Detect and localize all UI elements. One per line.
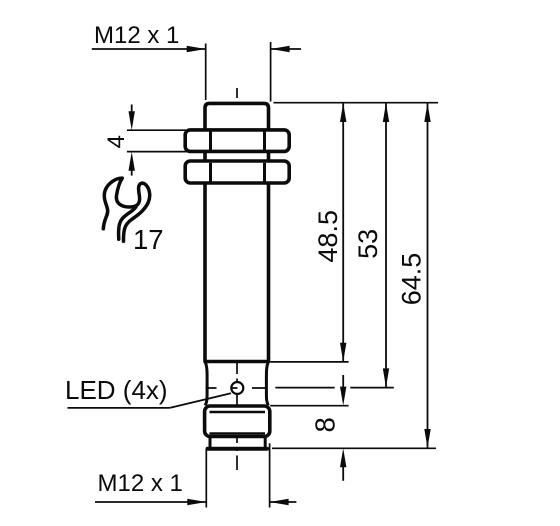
LED label underline	[68, 407, 170, 409]
right extension line at barrel step	[270, 361, 348, 363]
bottom M12 dimension line left part	[95, 501, 206, 503]
bottom M12 right arrowhead	[270, 499, 289, 505]
svg-text:4: 4	[103, 135, 130, 148]
LED ring section sides	[205, 363, 207, 406]
bottom M12 dimension line right part	[270, 501, 297, 503]
top M12 dimension line left part	[92, 48, 205, 50]
wrench handle left edge	[119, 207, 136, 239]
sensing face plate	[208, 447, 268, 451]
4-dim bottom extension line	[127, 151, 187, 153]
top M12 right arrowhead	[271, 46, 290, 52]
dimension line 53	[385, 103, 387, 387]
4-dim upper arrowhead	[129, 111, 135, 130]
53 top arrowhead	[383, 103, 389, 122]
hex nut 1 (upper)	[185, 130, 289, 152]
LED leader line	[170, 393, 231, 408]
53 bottom arrowhead	[383, 368, 389, 387]
right extension line at tip cap top (8 measure)	[270, 405, 348, 407]
LED horizontal centerline dashes	[206, 387, 268, 389]
right extension line at LED center (53 measure)	[275, 387, 393, 389]
bottom M12 left arrowhead	[187, 499, 206, 505]
svg-text:48.5: 48.5	[313, 210, 343, 263]
nut 1 facet edges	[209, 132, 212, 151]
LED (4x) indicator circle	[231, 382, 243, 394]
48.5 top arrowhead	[340, 103, 346, 122]
tip cap inner chamfer lines	[210, 411, 266, 414]
svg-text:8: 8	[310, 417, 341, 432]
svg-text:M12 x 1: M12 x 1	[94, 22, 179, 49]
top M12 dimension line right part	[271, 48, 301, 50]
wrench icon main outline	[103, 178, 149, 241]
svg-text:64.5: 64.5	[396, 253, 426, 306]
64.5 bottom arrowhead	[424, 429, 430, 448]
dimension 8 bottom arrow (outside)	[342, 465, 344, 481]
top M12 left arrowhead	[187, 46, 206, 52]
centerline vertical axis	[236, 88, 238, 470]
hex nut 2 (lower)	[185, 161, 289, 183]
right extension line at sensing face	[272, 447, 436, 449]
4-dim top extension line	[127, 129, 187, 131]
sensor barrel body	[205, 103, 269, 361]
64.5 top arrowhead	[424, 103, 430, 122]
svg-text:53: 53	[353, 229, 383, 259]
nut 2 facet edges	[209, 163, 212, 182]
svg-text:LED (4x): LED (4x)	[65, 375, 168, 405]
sensing face narrow collar	[209, 437, 212, 448]
bottom M12 right extension line	[269, 443, 271, 507]
svg-text:M12 x 1: M12 x 1	[98, 470, 183, 497]
tip cap (threaded tip)	[205, 406, 270, 437]
4-dim lower shaft	[131, 170, 133, 176]
4-dim lower arrowhead	[129, 152, 135, 171]
dimension line 48.5	[342, 103, 344, 362]
top M12 left extension line	[205, 44, 207, 101]
top M12 right extension line	[270, 42, 272, 102]
right top extension line (body top)	[273, 102, 438, 104]
dimension 8 top arrow (outside)	[342, 375, 344, 390]
svg-text:17: 17	[133, 224, 164, 255]
bottom M12 left extension line	[205, 449, 207, 508]
4-dim upper shaft	[131, 105, 133, 113]
48.5 bottom arrowhead	[340, 343, 346, 362]
dimension line 64.5	[427, 103, 429, 448]
